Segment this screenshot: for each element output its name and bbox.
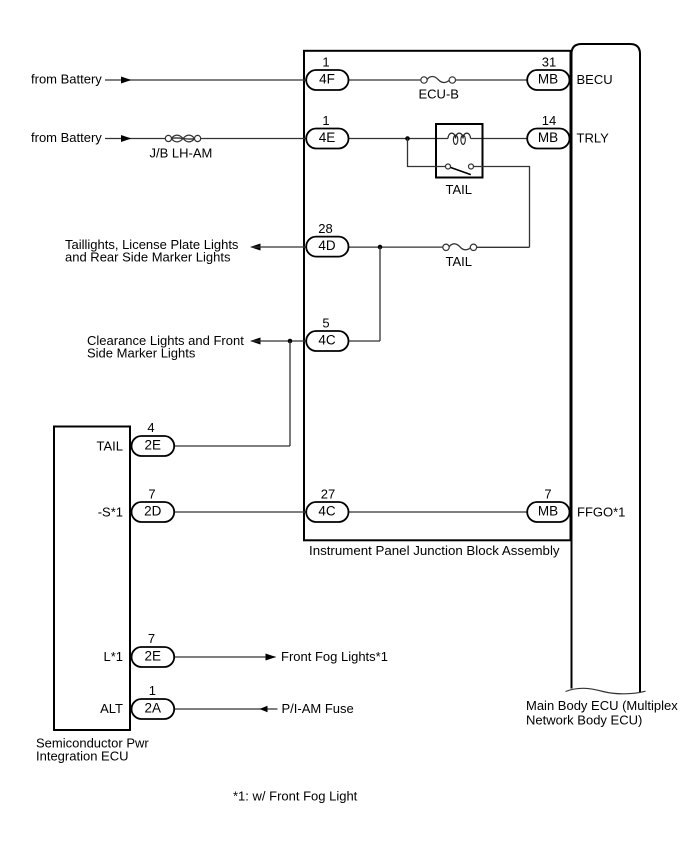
wire fuse to MB(31) xyxy=(456,79,528,81)
svg-text:4: 4 xyxy=(147,420,154,435)
relay TAIL box xyxy=(436,124,483,178)
connector 4C pin5 xyxy=(306,331,348,351)
relay switch blade xyxy=(450,167,470,174)
svg-text:TAIL: TAIL xyxy=(97,439,124,454)
svg-text:4C: 4C xyxy=(318,333,336,348)
wire 2D to 4C(27) xyxy=(174,511,306,513)
relay switch contacts xyxy=(446,164,451,169)
arrow right (front fog) xyxy=(266,654,277,661)
svg-text:Main Body ECU (Multiplex: Main Body ECU (Multiplex xyxy=(526,698,678,713)
arrow right (row 1) xyxy=(121,77,132,84)
wire 2E to vertical xyxy=(174,445,290,447)
connector MB pin31 xyxy=(527,70,569,90)
connector MB pin14 xyxy=(527,129,569,149)
svg-text:7: 7 xyxy=(544,487,551,502)
svg-text:2D: 2D xyxy=(144,504,162,519)
junction block box: Instrument Panel Junction Block Assembly xyxy=(304,51,571,541)
svg-text:4D: 4D xyxy=(318,238,336,253)
wire 4E to coil xyxy=(349,138,449,140)
svg-text:14: 14 xyxy=(542,113,556,128)
svg-text:7: 7 xyxy=(148,631,155,646)
arrow left (taillights) xyxy=(250,244,261,251)
svg-text:1: 1 xyxy=(322,113,329,128)
svg-text:MB: MB xyxy=(538,130,558,145)
fuse ECU-B xyxy=(421,77,427,83)
svg-text:27: 27 xyxy=(321,487,335,502)
svg-text:from Battery: from Battery xyxy=(31,130,102,145)
svg-text:2E: 2E xyxy=(145,649,162,664)
svg-text:MB: MB xyxy=(538,504,558,519)
main body ECU box (Multiplex Network Body ECU) xyxy=(572,44,641,692)
svg-text:4F: 4F xyxy=(319,72,335,87)
wire from battery to 4F xyxy=(105,79,306,81)
wire 2A(ALT) to P/I-AM arrow xyxy=(174,708,278,710)
fusible link J/B LH-AM xyxy=(165,135,171,141)
svg-text:Front Fog Lights*1: Front Fog Lights*1 xyxy=(281,649,388,664)
wire vertical 4D to 4C xyxy=(379,247,381,341)
connector 2A pin1 xyxy=(132,699,175,719)
svg-text:J/B LH-AM: J/B LH-AM xyxy=(150,146,213,161)
svg-text:FFGO*1: FFGO*1 xyxy=(577,504,625,519)
svg-text:5: 5 xyxy=(322,316,329,331)
arrow left (clearance) xyxy=(250,338,261,345)
svg-text:L*1: L*1 xyxy=(103,649,123,664)
wire fusible link to 4E xyxy=(201,138,306,140)
wire vertical 4C to 2E xyxy=(289,341,291,446)
wire 4C(5) to clearance arrow xyxy=(252,340,306,342)
wire switch out to vertical xyxy=(474,167,530,248)
svg-text:TRLY: TRLY xyxy=(577,131,610,146)
svg-text:2A: 2A xyxy=(145,701,162,716)
svg-text:from Battery: from Battery xyxy=(31,72,102,87)
svg-text:MB: MB xyxy=(538,72,558,87)
svg-text:TAIL: TAIL xyxy=(446,254,473,269)
svg-text:1: 1 xyxy=(322,55,329,70)
wire 4C(27) to MB(7) xyxy=(349,511,528,513)
svg-text:Instrument Panel Junction Bloc: Instrument Panel Junction Block Assembly xyxy=(309,543,560,558)
arrow left (P/I-AM) xyxy=(260,706,268,713)
junction dot on 4E wire xyxy=(405,136,410,141)
fuse TAIL xyxy=(443,244,449,250)
connector 4D xyxy=(306,237,348,257)
connector 2E pin7 (L) xyxy=(132,647,175,667)
wire 4C(5) to vertical xyxy=(349,340,381,342)
svg-text:Integration ECU: Integration ECU xyxy=(36,749,129,764)
relay coil xyxy=(448,133,471,138)
semiconductor box: Semiconductor Pwr Integration ECU xyxy=(54,427,130,731)
junction dot on 4D wire xyxy=(378,245,383,250)
connector 4F xyxy=(306,70,348,90)
connector 2E pin4 xyxy=(132,436,175,456)
svg-text:*1: w/ Front Fog Light: *1: w/ Front Fog Light xyxy=(233,789,358,804)
svg-text:TAIL: TAIL xyxy=(446,182,473,197)
wire 2E(L) to front fog arrow xyxy=(174,656,276,658)
svg-text:4E: 4E xyxy=(319,130,336,145)
wire fuse to vertical corner xyxy=(477,246,530,248)
arrow right (row 2) xyxy=(121,135,132,142)
svg-text:31: 31 xyxy=(542,55,556,70)
svg-text:28: 28 xyxy=(318,221,332,236)
wire 4D to fuse TAIL xyxy=(349,246,443,248)
svg-text:Side Marker Lights: Side Marker Lights xyxy=(87,345,196,360)
connector 4E xyxy=(306,129,348,149)
svg-text:ALT: ALT xyxy=(100,701,123,716)
connector 4C pin27 xyxy=(306,502,348,522)
connector MB pin7 xyxy=(527,502,569,522)
svg-text:ECU-B: ECU-B xyxy=(419,86,459,101)
svg-text:7: 7 xyxy=(148,487,155,502)
svg-text:1: 1 xyxy=(149,683,156,698)
junction dot on 4C wire xyxy=(288,339,293,344)
svg-text:and Rear Side Marker Lights: and Rear Side Marker Lights xyxy=(65,249,231,264)
relay branch wire (down from dot, into switch) xyxy=(408,139,446,167)
wire from battery to fusible link xyxy=(105,138,165,140)
svg-text:BECU: BECU xyxy=(577,72,613,87)
wire 4D to taillights arrow xyxy=(252,246,306,248)
svg-text:-S*1: -S*1 xyxy=(98,504,123,519)
wire 4F to fuse ECU-B xyxy=(349,79,421,81)
svg-text:2E: 2E xyxy=(145,438,162,453)
connector 2D pin7 xyxy=(132,502,175,522)
wire coil to MB(14) xyxy=(471,138,528,140)
main body ECU break (wavy bottom edge) xyxy=(566,688,646,694)
svg-text:4C: 4C xyxy=(318,504,336,519)
svg-text:P/I-AM Fuse: P/I-AM Fuse xyxy=(282,701,354,716)
svg-text:Network Body ECU): Network Body ECU) xyxy=(526,713,642,728)
